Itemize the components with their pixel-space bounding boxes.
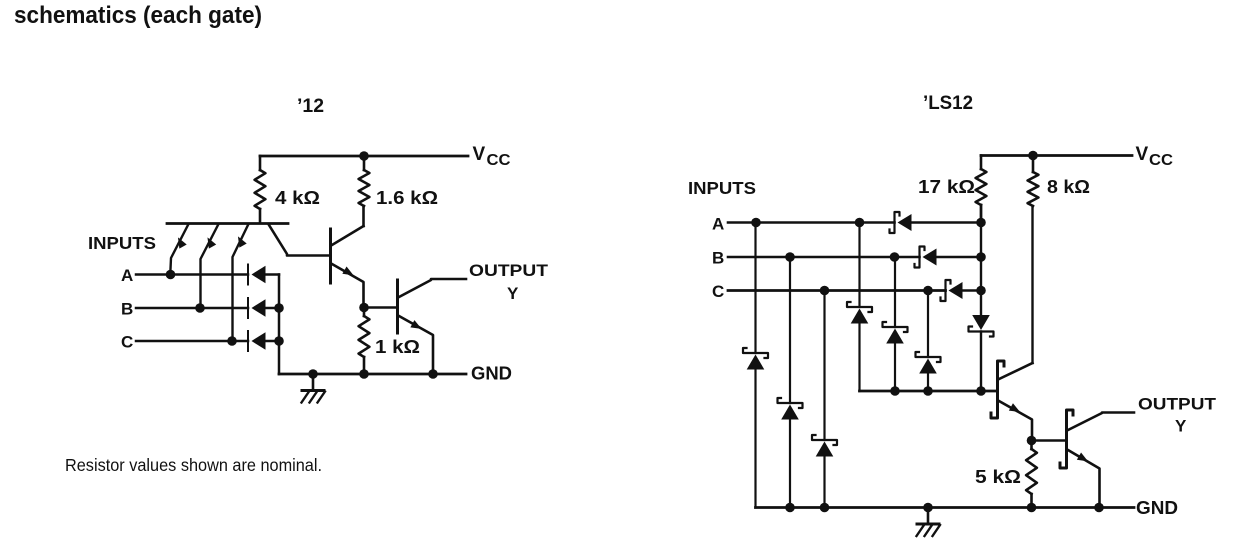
svg-text:Y: Y (1175, 417, 1187, 436)
svg-text:OUTPUT: OUTPUT (469, 262, 548, 280)
svg-text:5 kΩ: 5 kΩ (975, 467, 1021, 487)
svg-text:C: C (121, 333, 133, 352)
svg-text:schematics (each gate): schematics (each gate) (14, 2, 262, 29)
svg-text:’LS12: ’LS12 (923, 93, 973, 114)
svg-text:B: B (712, 249, 724, 268)
svg-text:OUTPUT: OUTPUT (1138, 396, 1216, 414)
svg-text:A: A (712, 215, 724, 234)
svg-text:INPUTS: INPUTS (88, 233, 156, 253)
svg-text:’12: ’12 (297, 96, 324, 117)
svg-text:B: B (121, 300, 133, 319)
svg-text:17 kΩ: 17 kΩ (918, 177, 975, 197)
svg-text:Y: Y (507, 284, 519, 303)
svg-text:8 kΩ: 8 kΩ (1047, 177, 1090, 197)
svg-text:1 kΩ: 1 kΩ (375, 337, 420, 357)
svg-text:Resistor values shown are nomi: Resistor values shown are nominal. (65, 455, 322, 475)
svg-text:V: V (473, 144, 486, 165)
svg-text:INPUTS: INPUTS (688, 178, 756, 198)
svg-text:A: A (121, 266, 133, 285)
svg-text:V: V (1136, 144, 1149, 165)
svg-text:CC: CC (1149, 152, 1173, 169)
svg-text:GND: GND (1136, 498, 1178, 518)
svg-text:C: C (712, 282, 724, 301)
svg-text:GND: GND (471, 364, 512, 384)
svg-text:1.6 kΩ: 1.6 kΩ (376, 188, 438, 208)
svg-text:CC: CC (487, 152, 511, 169)
svg-text:4 kΩ: 4 kΩ (275, 188, 320, 208)
